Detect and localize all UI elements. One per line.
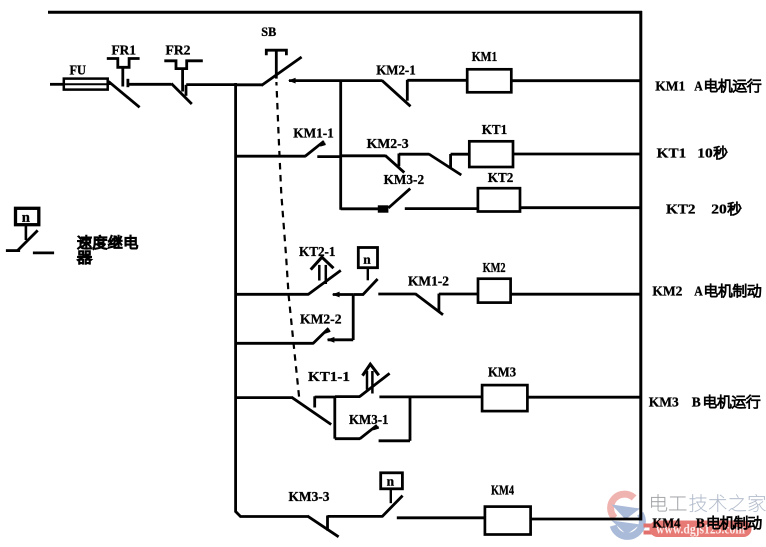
label KM1-1: [293, 125, 334, 140]
label rung5 KM3 B motor run: [649, 395, 760, 410]
svg-text:KM2: KM2: [483, 260, 506, 275]
coil KM2: [478, 279, 511, 303]
coil KM1: [467, 69, 511, 92]
svg-text:KM4: KM4: [652, 516, 680, 531]
label rung6 KM4 B motor brake: [652, 516, 761, 531]
svg-text:KM1: KM1: [472, 49, 498, 64]
svg-text:FU: FU: [70, 63, 87, 78]
svg-text:FR2: FR2: [166, 43, 191, 58]
wire rail to contact (rung3): [341, 207, 379, 210]
speed relay box n1: [358, 248, 377, 281]
label KM3-3: [289, 489, 330, 504]
wire KM2-2 to node C leg: [327, 337, 353, 343]
label KT1: [482, 122, 508, 137]
contact KM3-1 (NO): [360, 425, 379, 439]
label KM4: [491, 482, 514, 497]
wire rail to KM2-2: [236, 342, 313, 345]
svg-text:KM1-2: KM1-2: [408, 273, 449, 288]
coil KM3: [482, 385, 527, 411]
wire FR1 to FR2: [128, 83, 171, 86]
contact KM2-2 (NO): [313, 328, 331, 344]
svg-text:KM2-2: KM2-2: [300, 311, 342, 326]
wire contact to coil KT2: [405, 207, 478, 210]
svg-text:KT2-1: KT2-1: [299, 244, 336, 259]
svg-text:A: A: [694, 284, 703, 299]
label rung3 KT2 20s: [666, 202, 741, 217]
label KM1: [472, 49, 498, 64]
contact KM1-2 (NC): [415, 294, 443, 315]
thermal element FR1: [107, 59, 140, 87]
wire KM1-2 to coil KM2: [439, 293, 478, 296]
wire KM3-1 branch right leg: [409, 397, 412, 441]
label rung2 KT1 10s: [657, 146, 727, 161]
svg-text:10: 10: [697, 146, 713, 161]
wire KM2-3 to KM3-2: [399, 153, 429, 156]
label SB: [261, 25, 276, 39]
wire legend right stub: [33, 251, 54, 254]
wire rail to KT2-1: [236, 293, 309, 296]
wire KT1-1 to KM3 coil: [379, 395, 482, 398]
watermark logo swirl: [611, 494, 643, 536]
wire contact n2 to coil KM4: [397, 516, 486, 519]
svg-text:KT2: KT2: [666, 202, 696, 217]
pushbutton actuator SB: [266, 50, 286, 78]
svg-text:KM3: KM3: [488, 364, 516, 379]
label KM3-1: [349, 412, 389, 427]
wire coil KM3 to right rail: [527, 396, 642, 399]
wire coil KM4 to right rail: [531, 518, 642, 521]
wire FR2 to node A: [186, 83, 237, 86]
label KT2-1: [299, 244, 336, 259]
label KM2: [483, 260, 506, 275]
svg-text:A: A: [694, 79, 703, 94]
wire rail to SB-linked contact: [236, 396, 293, 399]
wire rail to KM1-1: [236, 155, 306, 158]
contact n2 (NO speed relay): [382, 496, 403, 517]
wire contact to node D: [315, 396, 335, 399]
contact FR2 (NC): [171, 84, 192, 105]
label KM3-2: [384, 172, 425, 187]
svg-text:FR1: FR1: [112, 43, 137, 58]
svg-text:KT1: KT1: [482, 122, 508, 137]
wire branch rail (rows 1-3): [339, 80, 342, 210]
svg-text:KM4: KM4: [491, 482, 514, 497]
label FU: [70, 63, 87, 78]
svg-text:KM2: KM2: [652, 284, 682, 299]
label KM2-3: [367, 136, 409, 151]
mechanical linkage (dashed): [276, 82, 299, 398]
wire top supply bus L1: [48, 11, 642, 14]
svg-text:KT1: KT1: [657, 146, 687, 161]
coil KT2 (time relay): [478, 188, 520, 211]
svg-text:KM2-1: KM2-1: [376, 62, 416, 77]
contact KT2-1 (NO delayed close): [308, 257, 341, 294]
label KM2-2: [300, 311, 342, 326]
coil KT1 (time relay): [469, 141, 513, 167]
wire legend left stub: [6, 249, 20, 252]
wire node C branch leg: [352, 295, 355, 341]
wire node C to contact n1: [353, 293, 363, 296]
wire branch bottom left: [335, 437, 360, 440]
wire right supply rail L2: [639, 11, 642, 520]
wire node A to SB: [236, 83, 263, 86]
watermark site name: [651, 494, 765, 512]
contact KM2-1 (NC): [382, 80, 411, 107]
contact KM3-3 (NC): [307, 516, 338, 537]
wire KT2-1 to node C: [332, 292, 353, 298]
wire coil KM2 to right rail: [511, 293, 642, 296]
watermark url bar: [650, 521, 752, 538]
wire coil KT1 to right rail: [513, 153, 642, 156]
label FR2: [166, 43, 191, 58]
speed relay box n (legend): [16, 208, 39, 240]
svg-text:KT1-1: KT1-1: [308, 369, 350, 384]
contact KM3-2 (NC): [429, 154, 462, 175]
svg-text:KM3-3: KM3-3: [289, 489, 330, 504]
contact KM1-1 (NO): [305, 141, 325, 156]
wire contact n1 to KM1-2: [378, 293, 416, 296]
wire branch bottom right: [379, 439, 410, 442]
wire coil KT2 to right rail: [520, 206, 642, 209]
label KM1-2: [408, 273, 449, 288]
wire stub left of fuse: [50, 83, 65, 86]
wire node B to KM2-3: [341, 154, 386, 157]
wire coil KM1 to right rail: [511, 79, 642, 82]
wire KM3-2 to coil KT1: [451, 153, 470, 156]
wire KM3-3 to contact n2: [328, 515, 383, 518]
contact n1 (NO speed relay): [362, 279, 377, 295]
contact FR1 (NC): [109, 79, 140, 108]
svg-text:B: B: [692, 395, 701, 410]
wire fuse to FR1: [108, 82, 111, 85]
svg-text:SB: SB: [261, 25, 276, 39]
svg-text:KM1: KM1: [655, 79, 685, 94]
contact SB-2 (NC, linked to SB): [292, 396, 332, 424]
label KM3: [488, 364, 516, 379]
svg-text:KM2-3: KM2-3: [367, 136, 409, 151]
contact n (legend): [18, 230, 38, 250]
speed relay box n2: [381, 473, 403, 503]
svg-text:20: 20: [711, 202, 727, 217]
contact KM3-2b (NO with stop): [378, 189, 410, 213]
wire KM1-1 to node B: [317, 155, 340, 158]
svg-text:B: B: [696, 516, 705, 531]
fuse FU: [64, 79, 108, 90]
label rung1 KM1 A motor run: [655, 79, 761, 94]
label rung4 KM2 A motor brake: [652, 284, 760, 299]
contact SB (NC): [261, 57, 301, 86]
label speed relay (Chinese): [78, 236, 138, 264]
watermark red mark: [644, 524, 653, 535]
svg-text:KM3-2: KM3-2: [384, 172, 425, 187]
wire node D to KT1-1: [335, 395, 360, 398]
coil KM4: [485, 507, 531, 535]
svg-text:KM3: KM3: [649, 395, 679, 410]
wire left vertical rail: [236, 83, 308, 517]
thermal element FR2: [164, 61, 203, 92]
svg-text:KT2: KT2: [488, 170, 514, 185]
wire KM2-1 to coil KM1: [407, 79, 467, 82]
label KM2-1: [376, 62, 416, 77]
wire SB to KM2-1: [288, 78, 382, 84]
contact KM2-3 (NC): [385, 154, 404, 173]
contact KT1-1 (NO delayed close): [360, 364, 390, 396]
svg-text:KM1-1: KM1-1: [293, 125, 334, 140]
wire KM3-1 branch left leg: [333, 397, 336, 439]
label KT2: [488, 170, 514, 185]
label KT1-1: [308, 369, 350, 384]
label FR1: [112, 43, 137, 58]
svg-text:KM3-1: KM3-1: [349, 412, 389, 427]
